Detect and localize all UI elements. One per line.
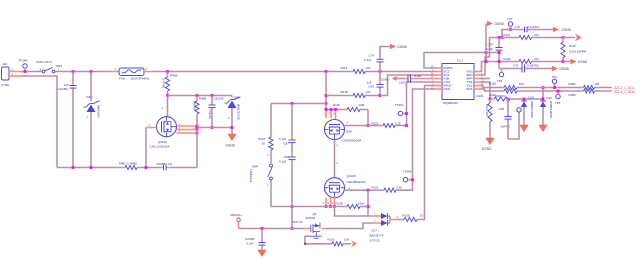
capacitor C4B 1uF/NC	[499, 99, 522, 139]
junction Q211B source taps	[325, 205, 336, 208]
svg-text:0.001 50PPM: 0.001 50PPM	[569, 49, 587, 53]
svg-text:Q2120: Q2120	[158, 140, 167, 144]
svg-text:C92: C92	[284, 155, 290, 159]
svg-text:100: 100	[366, 90, 371, 94]
svg-text:R41B: R41B	[341, 90, 348, 94]
junction TVS on snubber bus	[231, 126, 234, 129]
bottom return bus	[57, 167, 197, 169]
resistor R129 100 to PACK	[396, 86, 436, 222]
ground DGND below thermistor	[482, 138, 494, 151]
svg-text:VPACK+: VPACK+	[230, 213, 242, 217]
svg-text:SOT-23: SOT-23	[293, 220, 303, 224]
svg-text:R4B6: R4B6	[199, 96, 207, 100]
resistor R119 100	[341, 66, 437, 74]
capacitor C87 0.1uF	[279, 104, 296, 146]
junction thermistor row	[489, 98, 492, 101]
junction TP5	[553, 86, 556, 89]
svg-text:J2A: J2A	[2, 62, 7, 66]
svg-text:100: 100	[366, 66, 371, 70]
svg-text:C74: C74	[369, 54, 375, 58]
junction Q2120 source pins on vertical	[196, 125, 199, 135]
ground DGND below D20	[539, 125, 547, 132]
junction TP4	[557, 90, 560, 93]
switch SW3 KCD1-47=X	[36, 60, 62, 73]
svg-text:TP1#5: TP1#5	[403, 169, 412, 173]
svg-text:TP6: TP6	[497, 79, 503, 83]
Q68 drain pin 4	[345, 120, 368, 125]
svg-text:MMSZ5231B: MMSZ5231B	[237, 104, 241, 120]
resistor R41B 100	[326, 90, 380, 98]
resistor R125 0.001 50PPM (vertical)	[561, 38, 587, 62]
junction Q68 pin taps	[325, 108, 337, 111]
wire node to Q2120 drain	[162, 96, 168, 117]
junction gate row	[325, 102, 328, 105]
junction C2/2B2 tap	[261, 227, 264, 230]
svg-text:10M: 10M	[359, 103, 365, 107]
svg-text:R129: R129	[403, 213, 410, 217]
diode D20 MMBD4148SE	[540, 96, 553, 125]
svg-text:CSD16342Q5A: CSD16342Q5A	[342, 138, 361, 142]
svg-text:R11F: R11F	[490, 93, 497, 97]
svg-text:CSD18542K6A: CSD18542K6A	[347, 180, 366, 184]
svg-text:R12J: R12J	[504, 33, 511, 37]
capacitor C2/2B2 0.1uF	[245, 229, 266, 251]
wire SRN up to R12J row	[480, 38, 519, 76]
ground DGND arrow row R12D	[563, 59, 588, 65]
svg-text:DGND: DGND	[495, 22, 505, 26]
wire fuse to R119 row (main rail)	[152, 71, 353, 73]
svg-text:Q211B: Q211B	[347, 174, 356, 178]
Q2120 source pins 1 2 3	[176, 122, 197, 133]
net label Z2C1_1_SDA	[614, 90, 636, 94]
svg-text:R12F: R12F	[333, 103, 340, 107]
svg-text:Q4: Q4	[313, 212, 317, 216]
testpoint TP6	[497, 69, 504, 83]
testpoint TP1#5	[403, 169, 413, 182]
svg-text:100: 100	[595, 82, 600, 86]
svg-text:100: 100	[534, 57, 539, 61]
svg-text:R4B3: R4B3	[569, 82, 576, 86]
capacitor C2/2B0 1uF	[58, 72, 77, 168]
junction C2/2V5 bottom	[211, 126, 214, 129]
wire Q4 source to R130	[304, 236, 332, 245]
SCL row with R11E	[480, 82, 584, 90]
transistor Q4 2N7002 SOT-23	[293, 212, 329, 239]
capacitor C63 1uF	[367, 72, 384, 96]
svg-text:CJAC1100N10A: CJAC1100N10A	[149, 145, 169, 149]
junction C2/2V5 top	[211, 94, 214, 97]
TVS diode D4B SA5135A2	[225, 96, 241, 135]
junction D19 top	[523, 98, 526, 101]
svg-text:0.1uF/NC: 0.1uF/NC	[527, 64, 539, 68]
resistor R12F 10M	[333, 103, 368, 126]
wire node to snubber row	[168, 95, 233, 97]
junction R121 node	[367, 189, 370, 192]
svg-text:R1C4 10K: R1C4 10K	[485, 104, 489, 117]
Q2120 gate pin 5	[146, 123, 157, 128]
TVS diode D4B BMA42H4	[84, 72, 101, 168]
capacitor C79 0.1uF/NC	[502, 25, 553, 38]
svg-text:DGND: DGND	[381, 78, 391, 82]
svg-text:0.1uF: 0.1uF	[414, 74, 421, 78]
junction CHG drop on R122 row	[405, 124, 408, 127]
testpoint TP4 on SDA	[555, 91, 561, 105]
svg-text:DGND: DGND	[398, 45, 408, 49]
testpoint TP5 on SCL	[552, 75, 558, 88]
svg-text:Z2C1_1_SDA: Z2C1_1_SDA	[614, 90, 636, 94]
junction C7P on PWPD wire	[498, 51, 501, 54]
svg-text:C7P: C7P	[488, 43, 494, 47]
resistor R41A 1K (vertical)	[258, 104, 273, 164]
capacitor C74 0.1uF with DGND arrow	[364, 44, 408, 72]
junction TVS D4B tap	[90, 70, 93, 73]
svg-text:BAS16-7-F: BAS16-7-F	[370, 233, 385, 237]
svg-text:R41A: R41A	[258, 137, 265, 141]
junction R4B5 bottom node	[166, 94, 169, 97]
wire Q4 to D17 pin2	[328, 223, 373, 229]
svg-text:DGND: DGND	[578, 60, 588, 64]
junction R41B row	[325, 94, 328, 97]
svg-text:D20: D20	[547, 96, 553, 100]
svg-text:DGND: DGND	[482, 147, 492, 151]
IC U1 BQ28Z610	[442, 59, 474, 105]
svg-text:R125: R125	[569, 44, 576, 48]
svg-text:0.1uF/NC: 0.1uF/NC	[528, 25, 540, 29]
resistor R122 5.1K to CHG	[368, 82, 436, 128]
resistor R121 5.1K to DSG	[368, 89, 436, 192]
svg-text:1K: 1K	[262, 142, 266, 146]
wire snubber bottom bus	[197, 127, 232, 129]
capacitor C2/2V5 47uF/5V	[208, 96, 224, 128]
svg-text:TP4: TP4	[555, 101, 561, 105]
resistor R12B 10M	[336, 202, 369, 209]
junction TP1#4	[405, 112, 408, 115]
wire PWPD over the top of U1	[424, 53, 499, 69]
svg-text:FU6: FU6	[119, 76, 125, 80]
svg-text:KCD1-47=X: KCD1-47=X	[36, 60, 52, 64]
junction Q2120 gate net on bus	[145, 166, 148, 169]
svg-text:Q68: Q68	[346, 130, 352, 134]
testpoint TP1#3	[19, 59, 28, 72]
wire SRP stub	[480, 78, 490, 80]
svg-text:100: 100	[534, 33, 539, 37]
svg-text:R119: R119	[341, 66, 348, 70]
svg-text:C2/2B2: C2/2B2	[245, 237, 255, 241]
junction R4B6 top	[196, 94, 199, 97]
gate return bus	[271, 206, 347, 208]
svg-text:5.1K: 5.1K	[395, 121, 401, 125]
junction R125 top	[562, 36, 565, 39]
resistor R4B3 100 on SCL	[569, 82, 613, 90]
junction TP1#3 on wire	[24, 70, 27, 73]
junction cap C2/2B0 tap	[72, 70, 75, 73]
svg-text:DGND: DGND	[562, 28, 572, 32]
svg-text:SOT-23: SOT-23	[370, 238, 380, 242]
svg-text:R4B5: R4B5	[170, 74, 178, 78]
testpoint TP1#4	[395, 103, 407, 116]
junction D4B bottom	[90, 166, 93, 169]
offpage arrow row R12J	[563, 34, 582, 42]
svg-text:0.47/4W: 0.47/4W	[161, 78, 165, 88]
svg-text:0.1uF: 0.1uF	[279, 137, 287, 141]
vertical net Q2120 sources to bottom bus	[196, 128, 198, 168]
Q211B drain pin 4	[344, 186, 368, 190]
svg-text:R121: R121	[372, 186, 379, 190]
svg-text:C79: C79	[515, 25, 521, 29]
svg-text:BMA42H4: BMA42H4	[97, 105, 101, 118]
resistor R4B7 0 (in bus)	[119, 162, 140, 170]
svg-text:C2/2V5: C2/2V5	[214, 96, 224, 100]
junction C79 on R12J row	[501, 36, 504, 39]
J2A pin 2 stub	[9, 68, 21, 72]
mosfet Q211B CSD18542K6A	[325, 174, 366, 198]
ground DGND below snubber	[226, 134, 237, 148]
resistor R4B5 0.47/4W (vertical)	[161, 72, 177, 96]
mosfet Q68 pins 1 2 3 bus	[324, 104, 348, 120]
svg-text:TP1#4: TP1#4	[395, 103, 404, 107]
diode D19 MMBD4148SE	[521, 96, 534, 125]
svg-text:TSM6A4A2: TSM6A4A2	[249, 169, 253, 183]
svg-text:MMBD4148SE: MMBD4148SE	[530, 101, 534, 118]
junction PWPD DGND drop	[485, 51, 488, 54]
Q211B source pins 1 2 3	[323, 196, 335, 206]
junction C4B tap	[507, 98, 510, 101]
svg-text:D17: D17	[372, 228, 378, 232]
svg-text:SDA: SDA	[466, 87, 473, 91]
ground DGND and capacitor C1W on F1B	[381, 74, 436, 84]
svg-text:R11E: R11E	[490, 82, 497, 86]
wire Q211B drain node down to D17	[367, 190, 369, 216]
wire SW3 to fuse FU6	[55, 71, 111, 73]
svg-text:2N7002: 2N7002	[305, 216, 316, 220]
svg-text:C87: C87	[284, 142, 290, 146]
capacitor C7P 0.1uF (vertical)	[486, 38, 503, 69]
svg-text:C2/2B0: C2/2B0	[58, 87, 68, 91]
junction C7P top	[498, 36, 501, 39]
ground DGND arrow top	[486, 21, 505, 62]
IC U1 left pins PWPD VC1 VC2 F1B CHG PACK DSG	[431, 65, 454, 91]
wire TS1 down to thermistor row	[480, 82, 490, 99]
wire bus down to D17 pin1	[335, 207, 374, 217]
svg-text:C76: C76	[513, 64, 519, 68]
junction R125 bottom	[562, 60, 565, 63]
resistor R130 10K	[328, 237, 352, 246]
dual diode D17 BAS16-7-F SOT-23	[370, 211, 399, 242]
wire Q68 to Q211B common	[335, 140, 339, 178]
wire VSS up to R12D row	[480, 62, 519, 72]
junction D20 on R106 row	[542, 98, 545, 101]
svg-text:C1W: C1W	[399, 81, 406, 85]
svg-text:MMBD4148SE: MMBD4148SE	[549, 101, 553, 118]
svg-text:47uF/5V: 47uF/5V	[208, 109, 212, 119]
svg-text:10: 10	[420, 213, 424, 217]
svg-text:5.1K: 5.1K	[397, 186, 403, 190]
wire gate row to left column	[271, 103, 326, 105]
wire SCL tap down to D20	[542, 88, 544, 101]
svg-text:C2/2BB3 1uF: C2/2BB3 1uF	[156, 162, 172, 166]
svg-text:R4B7_0_R4B2: R4B7_0_R4B2	[119, 162, 137, 166]
junction snubber bottom left	[196, 126, 199, 129]
svg-text:C63: C63	[369, 85, 375, 89]
svg-text:10M: 10M	[358, 202, 364, 206]
capacitor C2/2BB3 1uF (in bus)	[156, 162, 172, 171]
resistor R4B8 100 on SDA	[569, 89, 613, 97]
junction inductor R4B5 tap	[166, 70, 169, 73]
svg-text:0.1uF: 0.1uF	[364, 58, 372, 62]
svg-text:39K/4W: 39K/4W	[192, 101, 196, 111]
mosfet Q68 CSD16342Q5A	[325, 120, 362, 143]
J2A pin 4 stub	[9, 72, 21, 76]
thermistor R1C4 10K NTC (vertical)	[485, 99, 492, 138]
SDA row with R11F	[480, 89, 584, 97]
junction C2/2B0 bottom	[72, 166, 75, 169]
resistor R4B6 39K/4W (vertical)	[192, 96, 206, 128]
svg-text:DSG: DSG	[444, 87, 451, 91]
ground DGND arrow C76	[552, 66, 570, 72]
svg-text:SK57GF4/4WL: SK57GF4/4WL	[131, 76, 150, 80]
vertical main rail drop at x326	[325, 72, 327, 104]
svg-text:0.1uF: 0.1uF	[486, 47, 493, 51]
svg-text:TP5: TP5	[552, 75, 558, 79]
net label Z2C1_1_SCL	[614, 86, 635, 90]
capacitor C92 0.1uF	[279, 143, 296, 228]
svg-text:U1 1: U1 1	[457, 59, 464, 63]
IC U1 right pins VSS SRN SRP TS1 SCL SDA	[466, 69, 484, 91]
junction R41B right	[379, 94, 382, 97]
resistor R106 33K/NC	[477, 94, 544, 101]
junction R12F to Q68 drain row	[367, 124, 370, 127]
svg-text:D19: D19	[529, 96, 535, 100]
resistor R12J 100	[504, 33, 564, 40]
svg-text:100: 100	[519, 82, 524, 86]
testpoint TP7	[507, 17, 513, 31]
svg-text:DGND: DGND	[560, 67, 570, 71]
mosfet Q2120 CJAC1100N10A	[149, 117, 177, 149]
net VPACK+	[230, 213, 242, 229]
junction on R12B row	[367, 205, 370, 208]
svg-text:R106: R106	[477, 94, 484, 98]
wire Q2120 gate down to bus	[145, 128, 147, 168]
svg-text:TP7: TP7	[507, 17, 513, 21]
svg-text:R12B: R12B	[336, 202, 343, 206]
svg-text:DGND: DGND	[226, 144, 236, 148]
ground DGND below C2/2B2	[258, 250, 266, 257]
junction D20 tap on SCL	[542, 86, 545, 89]
ground DGND arrow C79	[553, 27, 572, 33]
svg-text:TP1#3: TP1#3	[19, 59, 28, 63]
svg-text:XTND: XTND	[1, 83, 10, 87]
svg-text:R130: R130	[328, 237, 335, 241]
resistor R12D 100	[504, 57, 564, 64]
junction C87 column top	[291, 102, 294, 105]
wire VPACK+ row	[239, 228, 305, 230]
svg-text:C4B: C4B	[499, 107, 505, 111]
junction C7P column row61	[485, 60, 501, 63]
svg-text:0.1uF: 0.1uF	[246, 241, 254, 245]
fuse FU6 SK57GF4/4WL	[111, 67, 152, 80]
switch SW4 TSM6A4A2 (vertical)	[249, 164, 273, 206]
svg-text:0.1uF: 0.1uF	[279, 160, 287, 164]
junction TP1#5 on DSG drop	[411, 178, 414, 181]
connector J2A	[1, 62, 10, 87]
wire J2A pin4 down to bottom bus	[21, 76, 57, 168]
junction main rail to gate-drive column	[325, 70, 328, 73]
capacitor C76 0.1uF/NC	[499, 64, 552, 73]
svg-text:SW4: SW4	[252, 165, 259, 169]
wire J2A pin2 to SW3	[21, 71, 42, 73]
svg-text:R12D: R12D	[504, 57, 511, 61]
svg-text:10K: 10K	[344, 237, 349, 241]
ground DGND below D19	[520, 125, 528, 132]
junction C92 column on VPACK row	[291, 227, 294, 230]
svg-text:BQ28Z610: BQ28Z610	[444, 101, 459, 105]
offpage arrow R130	[351, 240, 357, 247]
svg-text:R4B8: R4B8	[569, 93, 576, 97]
junction C92 column on gate bus	[291, 205, 294, 208]
wire R41B node to VC2	[380, 75, 436, 96]
junction C74/C63 column	[379, 70, 382, 73]
